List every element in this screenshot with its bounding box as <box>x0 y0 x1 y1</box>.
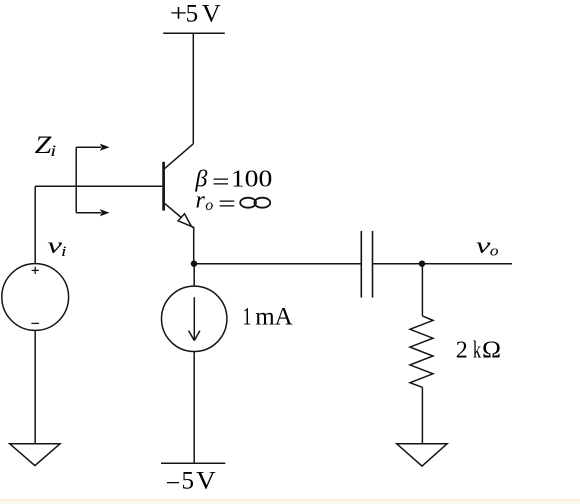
svg-text:i: i <box>50 143 56 160</box>
wire input bottom <box>34 330 36 443</box>
svg-text:o: o <box>490 244 499 260</box>
wire capacitor to node <box>373 263 423 265</box>
svg-text:k: k <box>473 337 481 363</box>
node emitter <box>191 261 197 267</box>
svg-text:o: o <box>205 197 213 214</box>
svg-text:100: 100 <box>231 167 273 193</box>
label Z_i <box>35 132 57 160</box>
label v_o <box>476 233 499 260</box>
svg-text:5: 5 <box>186 1 199 28</box>
label -5 V <box>166 468 216 497</box>
svg-text:1: 1 <box>243 303 252 330</box>
svg-text:−: − <box>166 470 181 497</box>
svg-text:V: V <box>196 468 216 495</box>
svg-text:i: i <box>61 244 67 260</box>
svg-text:V: V <box>202 1 221 28</box>
wire output <box>422 263 512 265</box>
wire collector <box>192 33 194 144</box>
current source I1 1 mA <box>162 286 227 351</box>
label 2 kOhm <box>456 337 501 363</box>
label r_o = infinity <box>196 187 236 217</box>
source V1 v_i <box>2 264 69 331</box>
ground left <box>10 444 60 466</box>
svg-text:mA: mA <box>255 303 293 330</box>
ground right <box>397 444 447 466</box>
svg-text:=: = <box>218 191 236 217</box>
node output <box>419 261 425 267</box>
wire node to resistor <box>421 264 423 316</box>
transistor Q1 <box>164 144 194 228</box>
wire current source to rail <box>193 351 195 463</box>
label beta = 100 <box>194 167 272 196</box>
label v_i <box>47 233 66 260</box>
wire resistor to ground <box>421 387 423 444</box>
wire base <box>35 185 163 187</box>
input impedance Z_i indicator <box>76 144 109 217</box>
resistor R1 2 kOhm <box>410 316 433 387</box>
svg-text:Ω: Ω <box>482 337 501 363</box>
svg-text:2: 2 <box>456 337 468 363</box>
svg-text:r: r <box>196 187 206 213</box>
wire emitter <box>193 227 195 264</box>
label 1 mA <box>243 303 293 330</box>
supply rail -5 V <box>161 462 225 464</box>
wire emitter to capacitor <box>194 263 361 265</box>
supply rail +5 V <box>163 32 225 34</box>
wire node to current source <box>193 264 195 286</box>
svg-text:5: 5 <box>182 468 195 495</box>
wire input top <box>34 186 36 263</box>
capacitor C1 <box>361 231 372 298</box>
label +5 V <box>170 1 221 28</box>
